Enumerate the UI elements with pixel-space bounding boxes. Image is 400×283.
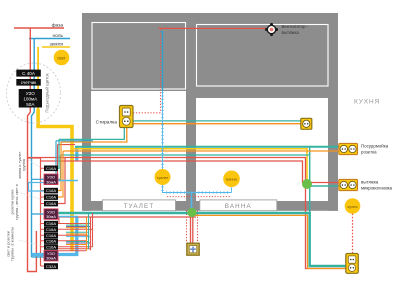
leader line group3 [19,240,42,246]
breaker C16A 5 [44,221,58,227]
bath room label box [200,200,277,211]
kitchen combo outlet [346,254,359,274]
wire: teal row to washer [59,127,124,139]
svg-text:ТУАЛЕТ: ТУАЛЕТ [124,203,155,210]
wire: washer to bath outlet orange [133,123,301,125]
wire: fan neutral [161,32,163,91]
svg-text:кухня: кухня [348,204,358,209]
svg-text:Посудомойка: Посудомойка [361,144,389,149]
wire: riser red bottom run [58,217,60,224]
svg-text:розетка: розетка [361,150,377,155]
WALLS [82,13,338,211]
svg-text:свет и розетки: свет и розетки [6,231,11,257]
wire: phase drop through meter [28,28,37,272]
wall: left [82,91,91,211]
washer combo outlet [120,106,134,128]
wire: ground riser thick [38,110,72,250]
svg-text:C16A: C16A [46,188,56,193]
svg-text:C16A: C16A [46,245,56,250]
microwave double outlet [339,179,358,190]
room outline 1 [92,23,186,90]
svg-text:C16A: C16A [46,233,56,238]
svg-text:C16A: C16A [46,239,56,244]
dishwasher double outlet [339,143,358,154]
wire: riser teal to C16A-1 [58,139,59,168]
wire: neutral stubs to RCDs [32,179,45,257]
svg-text:30мА: 30мА [46,179,56,184]
wire: RCD2 blue drop [58,216,78,218]
svg-text:вытяжка: вытяжка [361,180,379,185]
fan icon [265,23,278,36]
wire: phase feeder to breaker bus [28,158,41,266]
wire: phase bus (фаза) [14,27,64,29]
RCD 30mA 2 [44,209,58,220]
svg-text:C16A: C16A [46,221,56,226]
wire: ground bus (земля) [42,46,70,48]
wire: washer to bath outlet teal [133,120,301,122]
RCD 30mA 1 [44,174,58,185]
svg-text:C16A: C16A [46,166,56,171]
svg-text:C 40A: C 40A [22,71,36,76]
svg-text:ноль: ноль [52,34,63,39]
svg-text:30мА: 30мА [46,214,56,219]
svg-text:Стиралка: Стиралка [96,120,118,126]
wire: mesh teal rows [66,225,89,241]
room outline 2 [197,25,329,87]
wire: orange row to washer [61,127,127,142]
wire: fan feed [159,27,267,29]
wall: right (kitchen) [328,98,338,211]
breaker C40A [16,70,41,77]
svg-text:ВАННА: ВАННА [225,203,252,210]
wire: mesh orange rows [66,228,87,245]
wire: bottom orange run [194,215,346,268]
wire: riser orange to C16A-2 [58,142,61,191]
wire: neutral bus (ноль) [29,38,70,40]
RCD 100mA [19,89,42,108]
svg-text:C16A: C16A [46,195,56,200]
breaker C16A 6 [44,227,58,233]
lamp circle: свет [54,50,70,66]
wire: ground drop thin [37,47,39,110]
wall: top block [82,13,338,91]
wire: toilet light to junction ticked [163,185,232,193]
svg-text:C16A: C16A [46,227,56,232]
RCD 30mA 3 [44,250,58,261]
breaker C16A 2 [44,188,58,194]
svg-text:свет: свет [57,55,65,60]
wire: neutral connector segment [75,147,78,162]
svg-text:C32A: C32A [46,264,56,269]
wire: riser teal to RCD1 [58,155,61,179]
wire: neutral drop [32,39,35,258]
svg-text:100мА: 100мА [23,96,38,101]
junction dot kitchen [302,179,312,189]
wire: toilet light ticked drop [162,91,164,169]
wire: breaker bus stubs [41,168,45,266]
wall: toilet/bath divider [186,91,196,211]
wire: phase drop to RCD1 [58,145,76,174]
wire: neutral row upper [56,141,93,174]
svg-text:счетчик: счетчик [21,80,36,85]
wire: bottom teal run [58,213,346,266]
breaker C32A [44,263,58,269]
wire: bottom red run [59,216,196,218]
svg-text:вытяжка: вытяжка [282,30,300,35]
svg-text:розетки кухня: розетки кухня [9,190,14,215]
building shield dashed ellipse [7,63,61,123]
svg-text:C16A: C16A [46,201,56,206]
breaker C16A 7 [44,233,58,239]
wall: bath top extension [196,91,338,98]
wire: red row to microwave outlet [41,161,342,183]
svg-text:земля: земля [49,42,63,47]
wire: mesh purple rows [66,226,91,243]
breaker C16A 1 [44,166,58,172]
svg-text:50А: 50А [26,102,35,107]
meter (счетчик) [16,79,41,86]
svg-text:ванна и туалет: ванна и туалет [17,151,22,178]
wire: neutral bottom rail [32,217,77,255]
wire: ground row kitchen [72,149,307,181]
junction dot heating [187,208,196,217]
wire: heating feed pair [191,213,193,244]
svg-text:ванна: ванна [226,177,237,182]
toilet room label box [103,200,176,211]
wire: teal row mid [61,154,310,156]
wire: teal row to dishwasher [75,146,341,148]
bathroom outlet [301,118,312,129]
lamp circle: кухня [345,198,361,214]
wire: bath light dashed red [167,196,232,198]
svg-text:30мА: 30мА [46,256,56,261]
breaker C16A 8 [44,238,58,244]
svg-text:микроволновка: микроволновка [361,186,393,191]
lamp circle: ванна [223,171,240,188]
wire: mesh verticals [88,213,90,249]
wire: orange row to dishwasher [63,150,341,152]
svg-text:КУХНЯ: КУХНЯ [354,99,380,106]
leader line group1 [28,160,42,168]
wire: heating loop dashed sides [187,211,198,243]
wire: teal branch down kitchen [310,147,341,213]
svg-text:туалет: туалет [157,175,169,180]
leader line group2 [18,192,42,200]
wire: bath light ticked drop [231,187,233,192]
breaker C16A 3 [44,194,58,200]
svg-text:УЗО: УЗО [26,91,36,96]
wire: RCD1 blue stub [58,180,78,182]
wire: red row down to bottom kitchen outlet [28,158,347,269]
svg-text:Вентилятор -: Вентилятор - [282,24,309,29]
breaker C16A 4 [44,201,58,207]
floor heating box [187,243,199,255]
wall: bottom [83,201,338,211]
svg-text:Подъездный щиток: Подъездный щиток [45,73,50,112]
lamp circle: туалет [155,169,171,185]
wire: fan switch dashed riser [133,28,161,112]
svg-text:группа - весь свет и: группа - весь свет и [14,184,19,220]
wire: riser red to C16A-4 [58,158,65,204]
wire: neutral bracket [29,183,45,192]
wire: riser orange to C16A-3 [58,151,63,197]
svg-text:фаза: фаза [52,22,64,28]
wire: light drop through wall [191,193,193,212]
wire: breaker output stubs group3 [58,224,93,251]
breaker C16A 9 [44,244,58,250]
wire: kitchen light dashed drop [352,214,354,254]
